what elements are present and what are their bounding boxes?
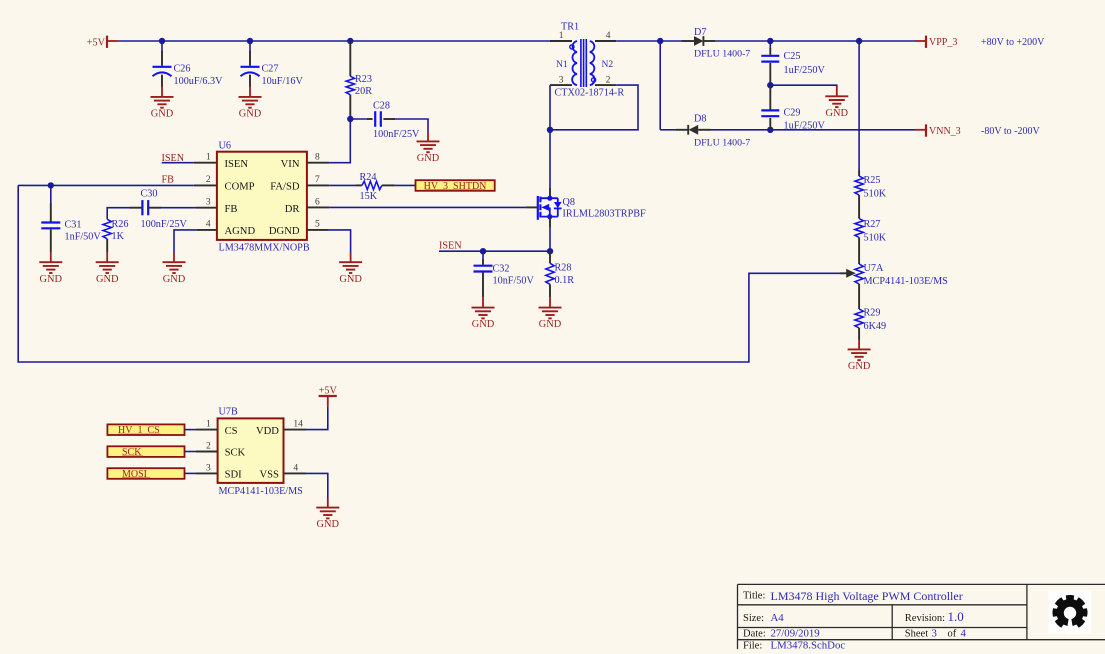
svg-text:100uF/6.3V: 100uF/6.3V: [174, 76, 224, 87]
svg-text:10uF/16V: 10uF/16V: [262, 76, 304, 87]
diode D8: [676, 114, 750, 149]
svg-text:4: 4: [606, 31, 611, 41]
wire C29 to VNN port: [770, 129, 915, 131]
svg-text:100nF/25V: 100nF/25V: [141, 219, 188, 230]
svg-text:R24: R24: [360, 172, 377, 183]
svg-text:MCP4141-103E/MS: MCP4141-103E/MS: [864, 276, 949, 287]
resistor R29: [855, 308, 886, 340]
svg-text:SDI: SDI: [225, 470, 243, 481]
capacitor C26: [153, 51, 224, 88]
ground GND (R26): [96, 252, 119, 285]
svg-text:FA/SD: FA/SD: [270, 182, 300, 193]
svg-text:3: 3: [206, 463, 211, 473]
resistor R24: [356, 172, 395, 202]
svg-text:1.0: 1.0: [948, 609, 964, 624]
text +80V annotation: [981, 37, 1045, 48]
wire MOSI to pin: [185, 472, 197, 474]
U6 pin 4 AGND: [196, 220, 255, 238]
svg-text:COMP: COMP: [225, 182, 255, 193]
svg-text:GND: GND: [539, 319, 562, 330]
svg-text:GND: GND: [472, 319, 495, 330]
wire C25 stub: [769, 41, 771, 48]
svg-text:CTX02-18714-R: CTX02-18714-R: [555, 88, 625, 99]
wire R24 to port: [395, 184, 416, 186]
op-amp U7B MCP4141 body: [218, 407, 304, 497]
svg-text:VNN_3: VNN_3: [929, 126, 961, 137]
svg-text:4: 4: [293, 463, 298, 473]
net label ISEN (sense): [439, 241, 462, 252]
wire SCK to pin: [185, 451, 197, 453]
port MOSI: [107, 468, 184, 480]
title block: [738, 584, 1105, 651]
svg-text:C31: C31: [65, 220, 82, 231]
svg-text:3: 3: [559, 76, 564, 86]
junction C29 bottom: [767, 127, 773, 133]
svg-text:C28: C28: [373, 101, 390, 112]
ground GND (C25/C29): [825, 86, 848, 119]
wire to D7: [660, 40, 681, 42]
transformer TR1 pin 1: [550, 31, 572, 41]
port HV_1_CS: [107, 424, 184, 436]
junction +5V/C27: [247, 38, 253, 44]
svg-text:HV_3_SHTDN: HV_3_SHTDN: [424, 181, 487, 192]
junction top node: [657, 38, 663, 44]
svg-text:VPP_3: VPP_3: [929, 37, 957, 48]
svg-text:GND: GND: [417, 153, 440, 164]
wire VDD to +5V: [306, 407, 328, 430]
svg-text:R25: R25: [864, 175, 881, 186]
svg-text:FB: FB: [162, 175, 175, 186]
svg-text:3: 3: [206, 197, 211, 207]
svg-text:100nF/25V: 100nF/25V: [373, 129, 420, 140]
wire C31 stub: [50, 185, 52, 203]
wire to D8: [660, 129, 676, 131]
svg-text:GND: GND: [151, 109, 174, 120]
svg-text:GND: GND: [40, 274, 63, 285]
svg-text:C27: C27: [262, 64, 279, 75]
U7B pin 3 SDI: [196, 463, 242, 480]
resistor R23: [346, 41, 372, 119]
wire DR to gate: [329, 206, 525, 208]
wire TR1 secondary loop: [550, 85, 638, 130]
power port +5V (left): [87, 36, 119, 49]
junction VPP node: [856, 38, 862, 44]
U6 pin 7 FA/SD: [270, 175, 329, 193]
capacitor C27: [241, 51, 304, 88]
wire C30 to pin3: [161, 207, 196, 209]
svg-text:AGND: AGND: [225, 226, 256, 237]
net label FB: [162, 175, 175, 186]
wire HV_1_CS to pin: [185, 429, 197, 431]
resistor R27: [855, 213, 887, 244]
svg-text:VSS: VSS: [259, 470, 279, 481]
svg-text:GND: GND: [163, 274, 186, 285]
wire D8 to C29: [711, 129, 771, 131]
svg-text:Size:: Size:: [743, 613, 764, 624]
svg-text:6: 6: [315, 197, 320, 207]
wire VPP node to port: [859, 40, 915, 42]
svg-text:Sheet: Sheet: [905, 629, 928, 640]
svg-text:GND: GND: [96, 274, 119, 285]
svg-text:27/09/2019: 27/09/2019: [771, 628, 820, 640]
svg-text:GND: GND: [317, 519, 340, 530]
svg-text:FB: FB: [225, 204, 238, 215]
svg-text:DFLU 1400-7: DFLU 1400-7: [694, 49, 750, 60]
U6 pin 5 DGND: [269, 220, 328, 238]
wire C27 stub: [249, 41, 251, 51]
svg-text:D8: D8: [694, 114, 706, 125]
wire DGND: [328, 230, 351, 253]
power port +5V (U7B): [319, 386, 338, 407]
svg-text:+5V: +5V: [87, 38, 106, 49]
svg-text:File:: File:: [743, 641, 762, 649]
svg-text:C32: C32: [493, 264, 510, 275]
svg-text:U7A: U7A: [864, 263, 884, 274]
junction TR1 pin3/drain: [547, 127, 553, 133]
transformer TR1 pin 3: [550, 76, 572, 86]
svg-text:510K: 510K: [864, 189, 887, 200]
wire TR1 pin4 to node: [616, 40, 660, 42]
svg-text:+80V to +200V: +80V to +200V: [981, 37, 1045, 48]
junction ISEN/C32: [480, 248, 486, 254]
svg-text:DR: DR: [285, 204, 301, 215]
ground GND (C32): [472, 297, 495, 330]
svg-text:Date:: Date:: [743, 629, 766, 640]
svg-text:GND: GND: [826, 108, 849, 119]
wire VPP node down to R25: [858, 41, 860, 170]
wire drain from TR1: [549, 130, 551, 188]
junction C25/C29/GND: [767, 82, 773, 88]
wire R25-R27: [858, 201, 860, 213]
ground GND (U6 DGND): [339, 253, 362, 285]
junction FB/C31: [48, 182, 54, 188]
svg-text:LM3478 High Voltage PWM Contro: LM3478 High Voltage PWM Controller: [771, 589, 963, 603]
wire feedback long: [18, 185, 840, 362]
power port VPP_3: [915, 36, 957, 48]
svg-text:2: 2: [206, 442, 211, 452]
svg-text:VIN: VIN: [281, 159, 300, 170]
svg-text:A4: A4: [771, 612, 785, 624]
svg-text:VDD: VDD: [256, 426, 279, 437]
svg-text:1: 1: [206, 420, 211, 430]
svg-text:2: 2: [606, 76, 611, 86]
wire VIN: [329, 119, 350, 163]
svg-text:SCK: SCK: [225, 448, 246, 459]
svg-text:Q8: Q8: [563, 197, 575, 208]
wire C30 left corner: [107, 208, 129, 220]
svg-text:4: 4: [206, 220, 211, 230]
svg-text:1K: 1K: [112, 231, 125, 242]
wire node down to D8: [659, 41, 661, 130]
capacitor C25: [761, 48, 825, 85]
ground GND (R29): [848, 340, 871, 373]
ground GND (C26): [151, 87, 174, 120]
svg-text:GND: GND: [339, 274, 362, 285]
U7B pin 1 CS: [196, 420, 238, 437]
svg-text:+5V: +5V: [319, 386, 338, 397]
svg-text:C29: C29: [784, 108, 801, 119]
svg-text:TR1: TR1: [561, 22, 579, 33]
capacitor C31: [41, 203, 101, 252]
U6 pin 2 COMP: [194, 175, 255, 193]
resistor R26: [103, 219, 128, 252]
resistor R28: [546, 251, 574, 297]
ground GND (R28): [539, 297, 562, 330]
svg-text:R27: R27: [864, 219, 881, 230]
svg-text:ISEN: ISEN: [225, 159, 249, 170]
svg-text:8: 8: [315, 153, 320, 163]
svg-text:C26: C26: [174, 64, 191, 75]
wire FA/SD: [329, 184, 356, 186]
wire COMP left: [18, 184, 194, 186]
ground GND (U7B): [316, 498, 339, 530]
svg-text:LM3478MMX/NOPB: LM3478MMX/NOPB: [219, 243, 310, 254]
capacitor C28: [367, 101, 420, 141]
capacitor C30: [130, 189, 188, 230]
wire mid to GND: [770, 85, 837, 87]
transistor Q8: [538, 196, 646, 220]
wire C28 left: [350, 118, 367, 120]
svg-text:U7B: U7B: [219, 407, 238, 418]
wire R27-U7A: [858, 243, 860, 264]
svg-text:1nF/50V: 1nF/50V: [65, 232, 102, 243]
junction +5V/R23: [347, 38, 353, 44]
capacitor C29: [761, 85, 825, 131]
port SCK: [107, 446, 184, 458]
svg-text:DFLU 1400-7: DFLU 1400-7: [694, 138, 750, 149]
svg-text:20R: 20R: [355, 86, 372, 97]
ground GND (C27): [239, 87, 262, 120]
resistor R25: [855, 170, 887, 201]
svg-text:10nF/50V: 10nF/50V: [493, 276, 535, 287]
svg-text:5: 5: [315, 220, 320, 230]
port HV_3_SHTDN: [416, 180, 495, 192]
svg-text:ISEN: ISEN: [439, 241, 462, 252]
logo gear: [1049, 591, 1092, 635]
svg-text:14: 14: [293, 420, 303, 430]
svg-text:Title:: Title:: [743, 591, 765, 602]
svg-text:0.1R: 0.1R: [555, 275, 575, 286]
svg-text:510K: 510K: [864, 233, 887, 244]
wire ISEN: [439, 250, 550, 252]
wire VSS to GND: [306, 473, 328, 498]
svg-text:MCP4141-103E/MS: MCP4141-103E/MS: [219, 486, 304, 497]
U6 pin 3 FB: [196, 197, 237, 215]
svg-text:N1: N1: [556, 60, 568, 70]
svg-text:4: 4: [961, 628, 967, 640]
wire C28 to GND: [395, 119, 428, 131]
junction C25 top: [767, 38, 773, 44]
capacitor C32: [474, 259, 535, 297]
transformer TR1 pin 4: [595, 31, 616, 41]
U6 pin 8 VIN: [281, 153, 329, 170]
svg-text:GND: GND: [848, 361, 871, 372]
text -80V annotation: [981, 126, 1040, 137]
svg-text:2: 2: [206, 175, 211, 185]
diode D7: [682, 27, 751, 60]
svg-text:GND: GND: [239, 109, 262, 120]
op-amp U6 LM3478 body: [217, 140, 310, 253]
wire C26 stub: [161, 41, 163, 51]
svg-text:R26: R26: [112, 219, 129, 230]
svg-text:1uF/250V: 1uF/250V: [784, 121, 826, 132]
transistor Q8 drain pin: [549, 188, 551, 198]
svg-text:3: 3: [932, 628, 937, 640]
power port VNN_3: [915, 124, 961, 137]
wire +5V rail: [119, 40, 550, 42]
net label ISEN: [162, 153, 194, 164]
wire C32 stub: [482, 251, 484, 259]
U6 pin 6 DR: [285, 197, 329, 215]
wire C25 to VPP node: [770, 40, 859, 42]
svg-text:of: of: [948, 629, 957, 640]
wire AGND: [174, 230, 196, 253]
junction ISEN/R28: [547, 248, 553, 254]
svg-text:DGND: DGND: [269, 226, 300, 237]
svg-text:-80V to -200V: -80V to -200V: [981, 126, 1040, 137]
svg-text:R23: R23: [355, 74, 372, 85]
svg-text:15K: 15K: [360, 191, 378, 202]
svg-text:C30: C30: [141, 189, 158, 200]
ground GND (C31): [39, 252, 62, 285]
junction R23/C28/VIN: [347, 116, 353, 122]
svg-text:Revision:: Revision:: [905, 613, 945, 624]
transformer TR1: [555, 22, 625, 99]
svg-text:1: 1: [206, 153, 211, 163]
svg-text:D7: D7: [694, 27, 706, 38]
U7B pin 4 VSS: [259, 463, 306, 480]
transistor Q8 source pin: [549, 217, 551, 227]
ground GND (C28): [417, 131, 440, 164]
svg-text:U6: U6: [219, 140, 231, 151]
wire U7A-R29: [858, 284, 860, 309]
U6 pin 1 ISEN: [194, 153, 249, 170]
svg-text:1: 1: [559, 31, 564, 41]
svg-text:7: 7: [315, 175, 320, 185]
svg-text:6K49: 6K49: [864, 321, 887, 332]
svg-text:LM3478.SchDoc: LM3478.SchDoc: [771, 640, 846, 649]
svg-text:CS: CS: [225, 426, 238, 437]
U7B pin 2 SCK: [196, 442, 246, 459]
U7B pin 14 VDD: [256, 420, 306, 437]
svg-text:R29: R29: [864, 308, 881, 319]
svg-text:R28: R28: [555, 263, 572, 274]
svg-text:N2: N2: [602, 60, 614, 70]
ground GND (U6 AGND): [163, 253, 186, 285]
wire source to ISEN: [549, 227, 551, 251]
transistor Q8 gate pin: [526, 206, 538, 208]
junction +5V/C26: [159, 38, 165, 44]
wire D7 to C25: [715, 40, 770, 42]
svg-text:C25: C25: [784, 51, 801, 62]
potentiometer U7A: [840, 263, 948, 287]
transformer TR1 pin 2: [595, 76, 616, 86]
svg-text:1uF/250V: 1uF/250V: [784, 65, 826, 76]
svg-text:IRLML2803TRPBF: IRLML2803TRPBF: [563, 209, 647, 220]
